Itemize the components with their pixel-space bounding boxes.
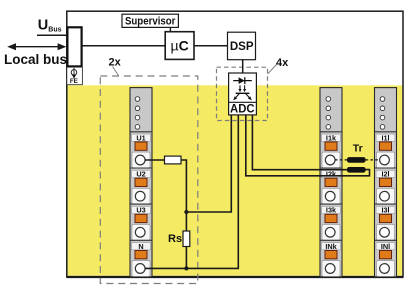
svg-text:I3l: I3l	[381, 206, 389, 215]
strip Il vent hole 1	[380, 97, 385, 102]
svg-text:2x: 2x	[109, 57, 122, 69]
strip U vent hole 2	[135, 106, 140, 111]
transformer Tr primary bar	[347, 157, 366, 163]
label 4x leader	[268, 65, 277, 74]
junction divider tap	[184, 210, 188, 214]
isolator / ADC box U-ADC	[229, 73, 257, 115]
junction N	[184, 266, 188, 270]
svg-text:U1: U1	[136, 133, 145, 142]
Local bus arrow	[7, 43, 66, 50]
svg-text:I2l: I2l	[381, 170, 389, 179]
svg-text:I1l: I1l	[381, 133, 389, 142]
terminal U1	[130, 132, 152, 168]
terminal I1k	[320, 132, 342, 168]
svg-text:U3: U3	[136, 206, 145, 215]
svg-text:U2: U2	[136, 170, 145, 179]
terminal INk	[320, 240, 342, 276]
terminal N	[130, 240, 152, 276]
wire divider tap to ADC pin1	[186, 115, 231, 212]
FE symbol	[71, 68, 77, 79]
wire ADC pin3 to transformer secondary right	[246, 115, 370, 176]
dashed multiplier box 2x	[100, 76, 198, 284]
op block uC	[165, 32, 194, 60]
dashed wire Tr to I1l	[366, 159, 380, 161]
yellow device body	[68, 85, 403, 275]
svg-text:DSP: DSP	[230, 41, 254, 53]
Supervisor box	[122, 14, 178, 27]
svg-text:INk: INk	[325, 242, 337, 251]
svg-text:N: N	[138, 242, 143, 251]
svg-text:INl: INl	[381, 242, 390, 251]
svg-text:I3k: I3k	[326, 206, 337, 215]
strip Il vent hole 2	[380, 106, 385, 111]
transformer Tr secondary bar	[347, 167, 366, 173]
strip Il vent hole 4	[380, 125, 385, 130]
svg-text:Tr: Tr	[353, 143, 363, 155]
wire uC to DSP	[194, 45, 228, 47]
wire ADC pin4 to transformer secondary left	[252, 115, 347, 170]
terminal strip Ik body	[320, 88, 342, 277]
optocoupler symbol	[233, 77, 252, 100]
terminal INl	[375, 240, 397, 276]
dashed multiplier box 4x	[217, 67, 268, 120]
terminal strip Il body	[375, 88, 397, 277]
U_Bus underline	[37, 34, 66, 36]
strip Il vent hole 3	[380, 115, 385, 120]
svg-text:Local bus: Local bus	[4, 51, 67, 67]
strip Ik vent hole 3	[326, 115, 331, 120]
wire U1 to divider	[145, 160, 186, 268]
svg-text:Supervisor: Supervisor	[125, 16, 176, 28]
strip Ik vent hole 4	[326, 125, 331, 130]
resistor Rs	[183, 231, 190, 247]
terminal strip U body	[130, 88, 152, 277]
terminal I3l	[375, 204, 397, 240]
strip U vent hole 1	[135, 97, 140, 102]
svg-text:I2k: I2k	[326, 170, 337, 179]
svg-text:µC: µC	[170, 37, 188, 53]
device frame bottom edge	[66, 276, 403, 278]
strip U vent hole 3	[135, 115, 140, 120]
strip Ik vent hole 1	[326, 97, 331, 102]
terminal I2l	[375, 168, 397, 204]
series resistor	[165, 156, 182, 164]
svg-text:I1k: I1k	[326, 133, 337, 142]
bus connector block	[67, 27, 81, 66]
svg-text:Rs: Rs	[168, 233, 182, 245]
terminal I1l	[375, 132, 397, 168]
label 2x leader	[113, 67, 119, 76]
svg-text:4x: 4x	[276, 57, 289, 69]
terminal I2k	[320, 168, 342, 204]
dashed wire I1k to Tr	[335, 159, 347, 161]
wire Supervisor to uC	[169, 27, 171, 31]
terminal U3	[130, 204, 152, 240]
svg-text:FE: FE	[70, 78, 78, 85]
FE compartment	[67, 68, 83, 85]
device frame	[67, 11, 403, 277]
svg-text:ADC: ADC	[230, 102, 255, 116]
strip U vent hole 4	[135, 125, 140, 130]
wire bus to uC	[83, 45, 166, 47]
terminal U2	[130, 168, 152, 204]
strip Ik vent hole 2	[326, 106, 331, 111]
terminal I3k	[320, 204, 342, 240]
wire N to ADC pin2	[145, 115, 238, 269]
DSP box	[228, 32, 256, 60]
wire DSP to isolator	[242, 60, 244, 74]
